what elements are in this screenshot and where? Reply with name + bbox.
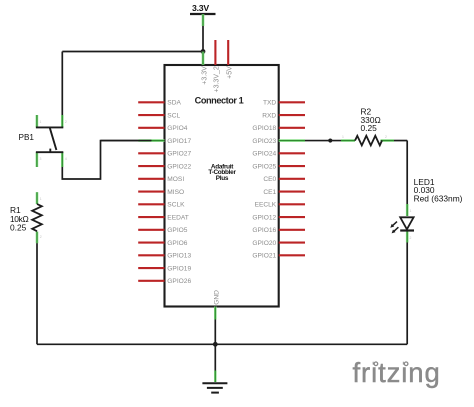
svg-text:+3.3V: +3.3V	[201, 66, 208, 85]
svg-text:SCL: SCL	[167, 112, 180, 119]
svg-text:GPIO6: GPIO6	[167, 240, 187, 247]
svg-text:GPIO5: GPIO5	[167, 227, 187, 234]
svg-text:SCLK: SCLK	[167, 202, 185, 209]
svg-text:2: 2	[410, 236, 412, 240]
svg-text:GPIO18: GPIO18	[252, 125, 276, 132]
svg-text:GPIO20: GPIO20	[252, 240, 276, 247]
svg-text:2: 2	[40, 235, 42, 239]
svg-text:1: 1	[40, 197, 42, 201]
svg-text:GPIO17: GPIO17	[167, 138, 191, 145]
svg-text:GPIO19: GPIO19	[167, 265, 191, 272]
svg-text:SDA: SDA	[167, 100, 181, 107]
svg-text:MOSI: MOSI	[167, 176, 184, 183]
svg-text:GPIO4: GPIO4	[167, 125, 187, 132]
svg-text:GPIO25: GPIO25	[252, 163, 276, 170]
svg-text:1: 1	[342, 135, 344, 139]
svg-text:4: 4	[65, 157, 67, 161]
svg-text:2: 2	[65, 120, 67, 124]
svg-text:MISO: MISO	[167, 189, 184, 196]
svg-text:GPIO13: GPIO13	[167, 253, 191, 260]
svg-text:PB1: PB1	[19, 133, 35, 142]
svg-text:fritzing: fritzing	[353, 357, 441, 388]
svg-text:TXD: TXD	[263, 100, 276, 107]
svg-text:1: 1	[410, 209, 412, 213]
svg-text:+5V: +5V	[227, 66, 234, 79]
svg-text:3: 3	[40, 157, 42, 161]
svg-text:GND: GND	[214, 290, 221, 305]
svg-text:Red (633nm): Red (633nm)	[414, 194, 463, 204]
svg-text:GPIO21: GPIO21	[252, 253, 276, 260]
svg-text:Connector 1: Connector 1	[195, 95, 244, 105]
svg-text:3.3V: 3.3V	[192, 3, 209, 13]
svg-text:RXD: RXD	[262, 112, 276, 119]
svg-text:GPIO23: GPIO23	[252, 138, 276, 145]
svg-text:+3.3V_2: +3.3V_2	[214, 66, 221, 92]
svg-text:GPIO26: GPIO26	[167, 278, 191, 285]
svg-text:0.25: 0.25	[10, 223, 27, 233]
svg-text:Plus: Plus	[216, 175, 229, 182]
svg-text:GPIO24: GPIO24	[252, 151, 276, 158]
svg-text:EEDAT: EEDAT	[167, 214, 189, 221]
svg-text:GPIO27: GPIO27	[167, 151, 191, 158]
svg-text:CE1: CE1	[263, 189, 276, 196]
svg-text:0.25: 0.25	[361, 123, 378, 133]
svg-text:EECLK: EECLK	[255, 202, 277, 209]
svg-text:GPIO16: GPIO16	[252, 227, 276, 234]
svg-text:GPIO22: GPIO22	[167, 163, 191, 170]
svg-text:2: 2	[385, 135, 387, 139]
svg-text:1: 1	[40, 120, 42, 124]
svg-text:CE0: CE0	[263, 176, 276, 183]
svg-text:GPIO12: GPIO12	[252, 214, 276, 221]
